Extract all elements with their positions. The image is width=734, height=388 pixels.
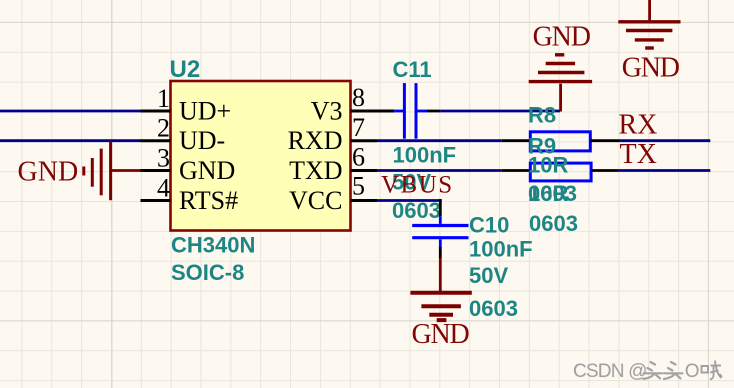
svg-text:100nF: 100nF: [393, 143, 457, 168]
svg-text:GND: GND: [411, 319, 469, 350]
designator C10: [469, 213, 509, 238]
wire net UD+ (pin 1): [0, 110, 141, 113]
pin number 4: [157, 174, 170, 203]
power port GND top-right: [618, 0, 680, 84]
pin name VCC: [289, 186, 342, 215]
svg-text:O: O: [685, 361, 699, 382]
IC U2 body: [171, 81, 351, 231]
svg-text:RTS#: RTS#: [179, 186, 238, 215]
svg-text:100nF: 100nF: [469, 237, 533, 262]
power port GND center (inverted): [529, 22, 592, 112]
value 100nF (C11): [393, 143, 457, 168]
wire V3 net segment (C11 left pin): [394, 110, 403, 113]
IC U2 type CH340N: [171, 233, 255, 258]
R8 right pin: [590, 139, 619, 142]
svg-text:C10: C10: [469, 213, 509, 238]
pin 8 stub: [351, 110, 395, 113]
svg-text:2: 2: [157, 114, 170, 143]
R9 right pin: [591, 169, 618, 172]
svg-text:UD+: UD+: [179, 96, 231, 125]
capacitor C10 plates: [412, 226, 468, 238]
svg-text:TX: TX: [620, 139, 657, 170]
pin number 2: [157, 114, 170, 143]
wire RX net: [619, 139, 710, 142]
watermark CSDN: [573, 361, 722, 383]
svg-text:6: 6: [352, 143, 365, 172]
svg-text:SOIC-8: SOIC-8: [171, 260, 244, 285]
wire TX net: [618, 169, 710, 172]
footprint 0603 (R9): [529, 211, 578, 236]
svg-text:10R: 10R: [528, 153, 568, 178]
capacitor C11 plates: [404, 83, 416, 139]
wire VBUS vertical drop: [439, 199, 442, 216]
svg-text:TXD: TXD: [289, 156, 342, 185]
footprint 0603 (R8): [528, 181, 577, 206]
value 10R (R8): [528, 153, 568, 178]
wire V3 net to GND: [440, 110, 560, 113]
svg-text:1: 1: [157, 84, 170, 113]
svg-text:RX: RX: [619, 110, 658, 141]
capacitor C10 bottom pin: [439, 239, 442, 247]
pin 4 stub: [141, 199, 171, 202]
svg-text:7: 7: [352, 113, 365, 142]
resistor R8 body: [530, 132, 590, 151]
pin 2 stub: [141, 139, 171, 142]
pin name TXD: [289, 156, 342, 185]
R8 left pin: [502, 139, 531, 142]
pin 1 stub: [141, 110, 171, 113]
IC U2 footprint SOIC-8: [171, 260, 244, 285]
footprint 0603 (C11): [392, 198, 441, 223]
wire TXD net (pin6 to R9): [377, 169, 502, 172]
net label VBUS: [381, 171, 454, 198]
designator U2: [170, 56, 201, 83]
value 10R (R9): [528, 181, 568, 206]
svg-text:3: 3: [157, 144, 170, 173]
wire C10 to GND: [439, 258, 442, 291]
pin 6 stub: [351, 169, 378, 172]
svg-text:U2: U2: [170, 56, 201, 83]
net label RX: [619, 110, 658, 141]
svg-text:VBUS: VBUS: [381, 171, 454, 198]
wire C10 to GND black segment: [439, 247, 442, 258]
wire V3 net black segment: [427, 110, 440, 113]
wire RXD net (pin7 to R8): [377, 139, 502, 142]
svg-text:4: 4: [157, 174, 170, 203]
pin name UD-: [179, 126, 225, 155]
svg-text:0603: 0603: [469, 296, 518, 321]
pin 5 stub: [351, 199, 378, 202]
svg-text:10R: 10R: [528, 181, 568, 206]
designator R8: [528, 103, 556, 128]
power port GND bottom: [410, 293, 471, 351]
svg-text:50V: 50V: [469, 263, 508, 288]
wire VBUS net (pin5 horizontal): [377, 199, 442, 202]
svg-text:GND: GND: [18, 157, 79, 188]
pin number 6: [352, 143, 365, 172]
svg-text:5: 5: [352, 171, 365, 200]
pin name V3: [311, 96, 343, 125]
capacitor C11 right pin: [417, 110, 427, 113]
svg-text:R8: R8: [528, 103, 556, 128]
pin name GND: [179, 156, 235, 185]
svg-text:8: 8: [352, 83, 365, 112]
voltage 50V (C11): [392, 170, 431, 195]
pin number 3: [157, 144, 170, 173]
pin number 8: [352, 83, 365, 112]
svg-text:RXD: RXD: [288, 126, 343, 155]
resistor R9 body: [530, 163, 591, 181]
R9 left pin: [502, 169, 531, 172]
svg-text:CH340N: CH340N: [171, 233, 255, 258]
svg-text:GND: GND: [533, 22, 591, 53]
pin 7 stub: [351, 139, 378, 142]
pin number 5: [352, 171, 365, 200]
wire net UD- (pin 2): [0, 139, 141, 142]
net label TX: [620, 139, 657, 170]
designator C11: [393, 57, 432, 82]
svg-text:V3: V3: [311, 96, 343, 125]
designator R9: [528, 134, 556, 159]
voltage 50V (C10): [469, 263, 508, 288]
svg-text:VCC: VCC: [289, 186, 342, 215]
pin name RTS#: [179, 186, 238, 215]
power port GND left (rotated): [18, 141, 142, 200]
svg-text:C11: C11: [393, 57, 432, 82]
footprint 0603 (C10): [469, 296, 518, 321]
svg-text:GND: GND: [179, 156, 235, 185]
value 100nF (C10): [469, 237, 533, 262]
pin name UD+: [179, 96, 231, 125]
capacitor C10 top pin: [439, 216, 442, 224]
svg-text:0603: 0603: [529, 211, 578, 236]
pin 3 stub: [141, 169, 171, 172]
svg-text:CSDN @: CSDN @: [573, 361, 647, 382]
pin name RXD: [288, 126, 343, 155]
pin number 1: [157, 84, 170, 113]
pin number 7: [352, 113, 365, 142]
svg-text:GND: GND: [622, 53, 680, 84]
svg-text:UD-: UD-: [179, 126, 225, 155]
